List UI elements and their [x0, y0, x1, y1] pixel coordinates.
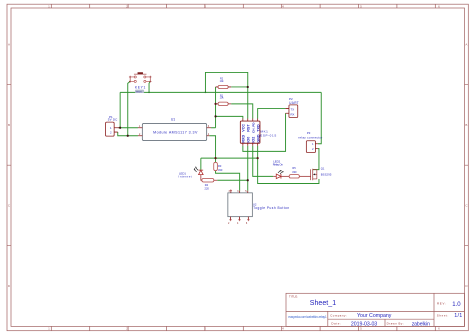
- svg-text:IO0: IO0: [247, 137, 251, 143]
- svg-text:RX: RX: [291, 112, 295, 116]
- wire GND-in P1 pin2 to U1 pin2: [118, 132, 138, 136]
- junction node IO0 at R4: [247, 179, 249, 181]
- svg-text:Your Company: Your Company: [357, 313, 392, 319]
- svg-text:BSS295: BSS295: [321, 173, 332, 177]
- svg-text:reset: reset: [136, 89, 142, 93]
- svg-text:IO2: IO2: [251, 137, 255, 143]
- push button KEY1 reset: [129, 72, 152, 93]
- junction node GND-in at P1 pin2: [127, 135, 129, 137]
- wire 5V row P1 pin1 to U1 pin1: [118, 127, 138, 129]
- title block: [286, 293, 465, 327]
- junction node 3.3V at R1: [214, 103, 216, 105]
- wire R1 right to ESP CH_PD: [231, 104, 253, 119]
- wire reset loop up-over to R2 right and ESP RST: [205, 72, 247, 118]
- svg-text:Company:: Company:: [330, 313, 347, 317]
- svg-text:B: B: [8, 123, 10, 127]
- svg-text:5V DC: 5V DC: [108, 118, 118, 122]
- connector P2 UART: [286, 97, 299, 117]
- wire KEY1 right to reset rail: [149, 81, 150, 92]
- svg-text:CH_PD: CH_PD: [251, 122, 255, 133]
- svg-text:Toggle Push Button: Toggle Push Button: [253, 206, 289, 210]
- svg-text:Sheet_1: Sheet_1: [310, 300, 336, 307]
- svg-text:Relay On: Relay On: [273, 163, 284, 167]
- svg-text:TITLE:: TITLE:: [289, 295, 298, 299]
- svg-text:Drawn By:: Drawn By:: [387, 322, 404, 326]
- wire ESP GND down and right to Q1 source: [258, 146, 319, 184]
- wire KEY1 left to GND-in: [128, 81, 130, 135]
- svg-text:REV:: REV:: [437, 301, 446, 305]
- wire ESP TXD to P2 TX: [258, 109, 286, 119]
- svg-text:Module AMS1117 3.3V: Module AMS1117 3.3V: [153, 131, 198, 135]
- wire ESP RXD to P2 RX: [243, 113, 286, 151]
- wire GND row to LED1 corner: [201, 157, 258, 159]
- wire R2 right lead to RST vertical: [231, 86, 248, 88]
- junction node 3.3V at VCC branch: [214, 115, 216, 117]
- svg-text:R5: R5: [292, 166, 296, 170]
- junction node reset at loop: [205, 92, 207, 94]
- resistor R4 220: [202, 179, 214, 191]
- wire ESP IO0 down to U2 pin and R4 node: [247, 146, 249, 191]
- resistor R5 330: [289, 166, 299, 178]
- svg-text:U1: U1: [171, 117, 175, 121]
- push button module U2 Toggle Push Button: [228, 189, 290, 225]
- LED1 Internet: [179, 166, 204, 179]
- transistor Q1 BSS295: [311, 167, 332, 181]
- wire LED2 anode lead: [273, 175, 276, 177]
- wire LED1 top: [200, 158, 202, 170]
- wire reset net top rail: [120, 91, 321, 93]
- connector P3 relay connector: [298, 131, 322, 152]
- wire P3 pin2 down to Q1 drain: [313, 149, 319, 170]
- svg-text:ESP-01S: ESP-01S: [260, 133, 276, 137]
- junction node GND at R3 top: [214, 157, 216, 159]
- wire R4 right to IO0 vertical: [214, 179, 218, 181]
- svg-text:A: A: [8, 43, 10, 47]
- junction node reset at KEY1: [148, 92, 150, 94]
- svg-text:relay connector: relay connector: [298, 136, 322, 140]
- wire P3 pin1 up to reset rail: [318, 92, 321, 143]
- svg-text:RST: RST: [247, 124, 251, 132]
- svg-text:Sheet:: Sheet:: [437, 313, 449, 317]
- svg-text:2019-03-03: 2019-03-03: [351, 321, 377, 327]
- svg-text:TX: TX: [291, 108, 295, 112]
- svg-text:zabelkin: zabelkin: [412, 321, 430, 327]
- wire 3.3V vertical R2-R1-U1pin3: [211, 87, 216, 128]
- svg-text:P3: P3: [307, 131, 311, 135]
- svg-text:330: 330: [218, 168, 223, 172]
- wire R5 to Q1 gate: [299, 175, 310, 177]
- connector P1 5V DC: [106, 115, 121, 136]
- regulator module U1 AMS1117: [138, 117, 211, 140]
- wire R3 top lead: [215, 158, 217, 162]
- wire R4 node to IO0 vertical: [217, 179, 247, 181]
- wire ESP IO2 down to LED2: [253, 146, 274, 177]
- svg-text:VCC: VCC: [242, 124, 246, 132]
- wire U1 pin4 GND down to GND row: [209, 136, 215, 158]
- wire 3.3V to ESP VCC: [216, 116, 243, 118]
- svg-text:RXD: RXD: [242, 135, 246, 143]
- module MK1 ESP-01S: [240, 119, 276, 146]
- svg-text:R3: R3: [218, 164, 222, 168]
- wire R3 bottom to U2 middle pin: [216, 171, 240, 191]
- svg-text:Q1: Q1: [321, 167, 325, 171]
- resistor R1 10k: [216, 94, 232, 105]
- LED2 Relay On: [273, 160, 284, 179]
- svg-text:A: A: [465, 43, 467, 47]
- wire LED1 bottom to R4: [201, 175, 202, 181]
- svg-text:KEY1: KEY1: [135, 86, 146, 90]
- junction node RST at R2: [247, 86, 249, 88]
- resistor R2 10k: [216, 78, 232, 89]
- svg-text:1.0: 1.0: [452, 302, 461, 308]
- svg-text:220: 220: [205, 186, 210, 190]
- junction node 5V at P1 pin1: [119, 127, 121, 129]
- svg-text:B: B: [465, 123, 467, 127]
- wire reset-to-5V-junction vertical: [119, 92, 121, 127]
- junction node GND at ESP GND: [257, 157, 259, 159]
- wire LED2 to R5: [281, 175, 289, 177]
- svg-text:easyeda.com/zabelkin-relay1: easyeda.com/zabelkin-relay1: [288, 315, 327, 319]
- svg-text:Internet: Internet: [179, 175, 192, 179]
- svg-text:1/1: 1/1: [454, 313, 462, 319]
- svg-text:UART: UART: [289, 101, 299, 105]
- svg-text:Date:: Date:: [331, 322, 341, 326]
- svg-text:330: 330: [292, 170, 297, 174]
- resistor R3 330: [214, 162, 223, 172]
